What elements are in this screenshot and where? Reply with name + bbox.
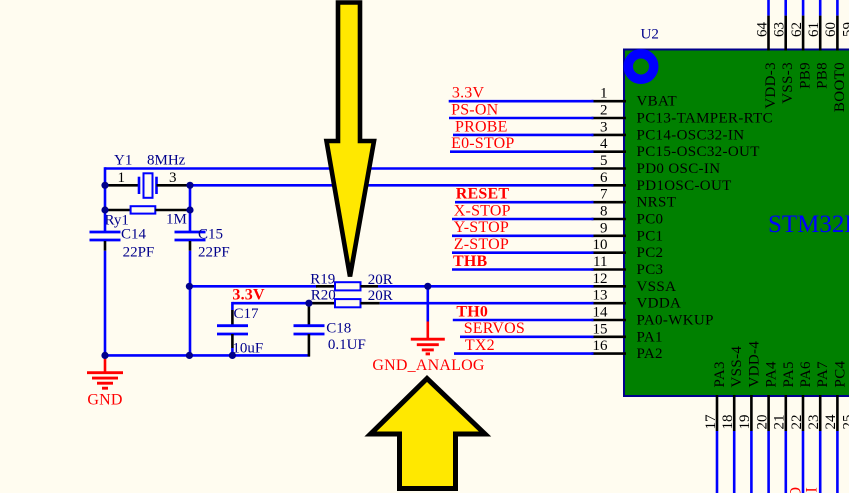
svg-text:17: 17	[703, 414, 719, 430]
power port GND	[87, 355, 123, 388]
value 20R (R20)	[368, 288, 393, 304]
junction crystal right	[186, 182, 193, 189]
pin 9 (PC1) left side	[592, 220, 664, 244]
pin 11 (PC3) left side	[592, 254, 664, 278]
svg-text:14: 14	[593, 305, 609, 321]
svg-text:PA1: PA1	[637, 329, 663, 345]
junction GND_ANALOG branch	[424, 283, 431, 290]
wire pin 10	[452, 251, 594, 254]
pin 18 (VSS-4) bottom side	[720, 346, 745, 493]
pin 14 (PA0-WKUP) left side	[592, 305, 714, 329]
net label PS-ON	[451, 101, 498, 118]
net label Y-STOP	[454, 219, 509, 236]
svg-text:3.3V: 3.3V	[452, 85, 485, 102]
GND_ANALOG label	[372, 357, 484, 374]
crystal pin 3 number	[169, 170, 177, 186]
svg-text:10uF: 10uF	[232, 341, 263, 357]
resistor Ry1	[105, 206, 190, 213]
capacitor C15	[175, 232, 206, 357]
svg-text:R20: R20	[311, 288, 336, 304]
net label PROBE	[455, 118, 508, 135]
svg-text:0.1UF: 0.1UF	[328, 337, 366, 353]
svg-text:MOSI: MOSI	[804, 487, 821, 493]
svg-text:R19: R19	[310, 272, 335, 288]
svg-text:PA2: PA2	[637, 346, 663, 362]
wire R19 to pin12	[378, 285, 594, 288]
svg-text:4: 4	[600, 136, 608, 152]
pin 64 (VDD-3) top side	[754, 0, 779, 109]
pin 3 (PC14-OSC32-IN) left side	[592, 119, 745, 143]
svg-text:22PF: 22PF	[198, 245, 230, 261]
svg-text:1: 1	[118, 170, 126, 186]
svg-text:16: 16	[593, 338, 609, 354]
svg-text:VSSA: VSSA	[637, 279, 677, 295]
resistor R19	[316, 282, 378, 290]
svg-text:61: 61	[806, 22, 822, 37]
svg-text:PC1: PC1	[637, 228, 664, 244]
svg-text:7: 7	[600, 187, 608, 203]
svg-text:PC14-OSC32-IN: PC14-OSC32-IN	[637, 127, 745, 143]
svg-text:PA5: PA5	[781, 361, 797, 387]
wire pin 8	[452, 218, 594, 221]
value 10uF	[232, 341, 263, 357]
svg-text:PA7: PA7	[815, 361, 831, 387]
svg-text:PB8: PB8	[815, 62, 831, 89]
wire pin 9	[452, 235, 594, 238]
designator R20	[311, 288, 336, 304]
svg-text:Y-STOP: Y-STOP	[454, 219, 509, 236]
pin 6 (PD1OSC-OUT) left side	[592, 170, 732, 194]
svg-text:20R: 20R	[368, 288, 393, 304]
designator R19	[310, 272, 335, 288]
svg-text:59: 59	[840, 22, 849, 37]
svg-text:60: 60	[823, 22, 839, 37]
svg-text:MISO: MISO	[788, 487, 805, 493]
junction C17 bottom	[229, 352, 236, 359]
resistor R20	[312, 299, 380, 307]
svg-text:C17: C17	[234, 306, 260, 322]
svg-text:64: 64	[754, 22, 770, 38]
svg-text:BOOT0: BOOT0	[832, 62, 848, 112]
capacitor C17	[217, 310, 248, 357]
pin 8 (PC0) left side	[592, 204, 664, 228]
svg-text:15: 15	[593, 321, 608, 337]
net label THB	[453, 253, 488, 270]
svg-text:PC2: PC2	[637, 245, 664, 261]
part name STM32F	[768, 211, 849, 238]
annotation arrow down	[327, 3, 375, 277]
junction Ry1 left	[101, 206, 108, 213]
designator C15	[198, 227, 223, 243]
pin 12 (VSSA) left side	[592, 271, 677, 295]
net label RESET	[456, 186, 510, 203]
crystal pin 1 number	[118, 170, 126, 186]
svg-text:SERVOS: SERVOS	[464, 320, 525, 337]
junction Ry1 right	[186, 206, 193, 213]
junction crystal left	[101, 182, 108, 189]
svg-text:PROBE: PROBE	[455, 118, 508, 135]
svg-text:THB: THB	[453, 253, 488, 270]
net label MISO (clipped)	[788, 487, 805, 493]
svg-text:PA6: PA6	[798, 361, 814, 387]
svg-text:62: 62	[789, 22, 805, 37]
designator Y1	[114, 153, 132, 169]
svg-text:Y1: Y1	[114, 153, 132, 169]
svg-text:3.3V: 3.3V	[232, 287, 265, 304]
IC U2 body	[624, 50, 849, 397]
svg-text:U2: U2	[641, 27, 659, 43]
pin 59 (offscreen) top side	[840, 0, 849, 51]
svg-text:X-STOP: X-STOP	[454, 202, 511, 219]
svg-text:VDD-3: VDD-3	[763, 62, 779, 109]
svg-text:5: 5	[600, 153, 608, 169]
net label E0-STOP	[451, 135, 514, 152]
power port GND_ANALOG	[411, 322, 445, 354]
crystal Y1	[105, 173, 190, 198]
svg-text:PC3: PC3	[637, 262, 664, 278]
value 1M	[166, 212, 187, 228]
pin 61 (PB8) top side	[806, 0, 831, 89]
wire pin 11	[452, 268, 594, 271]
svg-text:20: 20	[754, 415, 770, 430]
net label X-STOP	[454, 202, 511, 219]
pin 5 (PD0 OSC-IN) left side	[592, 153, 721, 177]
net label SERVOS	[464, 320, 525, 337]
pin 25 (offscreen) bottom side	[840, 395, 849, 493]
svg-text:TH0: TH0	[456, 303, 488, 320]
wire 3.3V net	[232, 302, 312, 310]
svg-text:13: 13	[593, 288, 608, 304]
pin 63 (VSS-3) top side	[772, 0, 797, 104]
pin 19 (VDD-4) bottom side	[737, 341, 762, 493]
svg-text:18: 18	[720, 415, 736, 430]
value 8MHz	[147, 153, 186, 169]
svg-text:2: 2	[600, 103, 608, 119]
GND label	[87, 392, 122, 409]
svg-text:C15: C15	[198, 227, 223, 243]
designator C14	[121, 227, 147, 243]
pin 20 (PA4) bottom side	[754, 361, 779, 493]
svg-text:PB9: PB9	[798, 62, 814, 89]
value 0.1UF	[328, 337, 366, 353]
svg-text:25: 25	[840, 415, 849, 430]
capacitor C14	[90, 232, 121, 357]
pin 24 (PC4) bottom side	[823, 360, 848, 493]
svg-text:19: 19	[737, 415, 753, 430]
net label MOSI (clipped)	[804, 487, 821, 493]
svg-text:TX2: TX2	[465, 337, 495, 354]
svg-text:RESET: RESET	[456, 186, 510, 203]
net label 3.3V (C17)	[232, 287, 265, 304]
wire crystal right vertical	[189, 185, 192, 231]
svg-text:PA3: PA3	[712, 361, 728, 387]
value 20R (R19)	[368, 272, 393, 288]
wire pin 14	[453, 319, 594, 322]
wire pin12 to GND_ANALOG	[426, 286, 429, 321]
designator U2	[641, 27, 659, 43]
svg-text:GND_ANALOG: GND_ANALOG	[372, 357, 484, 374]
svg-text:PA4: PA4	[764, 361, 780, 387]
wire ground bottom	[105, 354, 310, 357]
value 22PF (C15)	[198, 245, 230, 261]
designator Ry1	[105, 213, 129, 229]
wire R20 to pin13	[380, 302, 594, 305]
svg-text:PC0: PC0	[637, 212, 664, 228]
svg-text:8: 8	[600, 204, 608, 220]
svg-text:24: 24	[823, 414, 839, 430]
svg-text:11: 11	[593, 254, 607, 270]
pin 23 (PA7) bottom side	[806, 361, 831, 493]
svg-text:3: 3	[600, 119, 608, 135]
wire pin 4	[450, 150, 594, 153]
svg-text:1: 1	[600, 86, 608, 102]
net label TX2	[465, 337, 495, 354]
blue ring marker	[628, 54, 654, 80]
pin 7 (NRST) left side	[592, 187, 677, 211]
annotation arrow up	[371, 379, 486, 489]
pin 16 (PA2) left side	[592, 338, 663, 362]
svg-text:9: 9	[600, 220, 608, 236]
capacitor C18	[294, 303, 325, 356]
pin 4 (PC15-OSC32-OUT) left side	[592, 136, 760, 160]
svg-text:C18: C18	[326, 321, 351, 337]
svg-text:21: 21	[772, 415, 788, 430]
pin 13 (VDDA) left side	[592, 288, 682, 312]
svg-text:22PF: 22PF	[123, 245, 155, 261]
pin 22 (PA6) bottom side	[789, 361, 814, 493]
value 22PF (C14)	[123, 245, 155, 261]
wire pin 6 from crystal right	[190, 184, 594, 187]
pin 10 (PC2) left side	[592, 237, 664, 261]
pin 15 (PA1) left side	[592, 321, 663, 345]
wire crystal left vertical	[104, 185, 107, 231]
pin 17 (PA3) bottom side	[703, 361, 728, 493]
pin 21 (PA5) bottom side	[772, 361, 797, 493]
pin 60 (BOOT0) top side	[823, 0, 848, 112]
wire pin 3	[453, 134, 594, 137]
svg-text:PC15-OSC32-OUT: PC15-OSC32-OUT	[637, 144, 760, 160]
svg-text:Z-STOP: Z-STOP	[454, 236, 509, 253]
svg-text:STM32F103: STM32F103	[768, 211, 849, 238]
svg-text:PC4: PC4	[832, 360, 848, 387]
net label Z-STOP	[454, 236, 509, 253]
pin 2 (PC13-TAMPER-RTC) left side	[592, 103, 774, 127]
svg-text:12: 12	[593, 271, 608, 287]
svg-text:23: 23	[806, 415, 822, 430]
svg-text:63: 63	[772, 22, 788, 37]
svg-text:VDDA: VDDA	[637, 296, 682, 312]
svg-text:8MHz: 8MHz	[147, 153, 186, 169]
svg-text:VSS-3: VSS-3	[780, 62, 796, 104]
svg-text:3: 3	[169, 170, 177, 186]
junction GND	[101, 352, 108, 359]
svg-text:C14: C14	[121, 227, 147, 243]
svg-text:22: 22	[789, 415, 805, 430]
wire pin 15	[460, 335, 594, 338]
svg-text:VBAT: VBAT	[637, 94, 678, 110]
junction R19 branch	[186, 283, 193, 290]
svg-text:PD1OSC-OUT: PD1OSC-OUT	[637, 178, 732, 194]
pin 1 (VBAT) left side	[592, 86, 678, 110]
junction C18 branch	[305, 300, 312, 307]
svg-text:PD0 OSC-IN: PD0 OSC-IN	[637, 161, 721, 177]
net label TH0	[456, 303, 488, 320]
designator C17	[234, 306, 260, 322]
wire pin 5 to crystal	[105, 167, 594, 186]
wire pin 16	[454, 352, 594, 355]
svg-text:10: 10	[593, 237, 608, 253]
svg-text:6: 6	[600, 170, 608, 186]
designator C18	[326, 321, 351, 337]
svg-text:VDD-4: VDD-4	[746, 341, 762, 388]
svg-text:PS-ON: PS-ON	[451, 101, 498, 118]
svg-text:PC13-TAMPER-RTC: PC13-TAMPER-RTC	[637, 111, 774, 127]
svg-text:NRST: NRST	[637, 195, 677, 211]
pin 62 (PB9) top side	[789, 0, 814, 89]
svg-text:E0-STOP: E0-STOP	[451, 135, 514, 152]
svg-text:PA0-WKUP: PA0-WKUP	[637, 313, 714, 329]
wire pin 2	[449, 117, 594, 120]
net label 3.3V	[452, 85, 485, 102]
wire pin 1	[449, 100, 594, 103]
svg-text:VSS-4: VSS-4	[729, 346, 745, 388]
svg-text:1M: 1M	[166, 212, 187, 228]
wire pin 7	[455, 201, 594, 204]
junction C15 bottom	[186, 352, 193, 359]
svg-text:GND: GND	[87, 392, 122, 409]
wire GND to R19	[190, 285, 317, 288]
